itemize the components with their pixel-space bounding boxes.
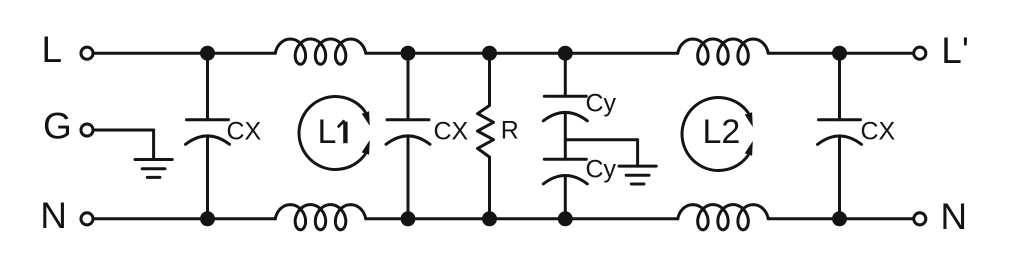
terminal G [81,124,93,136]
wire [768,217,912,220]
terminal N [81,213,93,225]
svg-text:CX: CX [434,117,469,145]
svg-text:Cy: Cy [586,89,617,117]
inductor L1 bottom winding [275,205,365,230]
junction [558,211,573,226]
junction [832,46,847,61]
junction [200,46,215,61]
terminal L [81,47,93,59]
wire [95,129,154,132]
wire [152,130,155,160]
capacitor Cy (upper) [543,96,587,121]
junction [401,46,416,61]
inductor L2 top winding [678,39,768,64]
wire [366,52,678,55]
terminal L' [914,47,926,59]
svg-text:CX: CX [861,117,896,145]
wire [407,136,410,219]
terminal N' [914,213,926,225]
svg-text:N: N [40,195,67,236]
wire [636,140,639,166]
svg-text:Cy: Cy [586,156,617,184]
svg-text:N: N [940,196,967,237]
inductor L1 top winding [275,39,365,64]
junction [482,211,497,226]
svg-text:L2: L2 [703,113,741,151]
svg-text:R: R [501,116,519,144]
ground [135,160,172,178]
choke symbol L1 [299,96,370,169]
wire [206,53,209,120]
wire [565,138,637,141]
wire [564,112,567,159]
wire [768,52,912,55]
wire [95,217,276,220]
junction [482,46,497,61]
junction [401,211,416,226]
svg-text:L': L' [941,30,969,71]
inductor L2 bottom winding [678,205,768,230]
junction [832,211,847,226]
capacitor CX (right) [818,120,862,145]
wire [564,176,567,219]
wire [407,53,410,120]
junction [558,46,573,61]
ground [619,166,656,184]
svg-text:G: G [43,106,72,147]
wire [366,217,678,220]
capacitor CX (left) [186,120,230,145]
wire [838,136,841,219]
wire [95,52,276,55]
wire [838,53,841,120]
capacitor Cy (lower) [543,159,587,184]
choke symbol L2 [682,98,753,171]
capacitor CX (middle) [386,120,430,145]
wire [206,136,209,219]
svg-text:L: L [318,113,337,151]
junction [200,211,215,226]
resistor R [478,53,494,219]
svg-text:CX: CX [227,117,262,145]
svg-text:L: L [42,29,63,70]
wire [564,53,567,96]
